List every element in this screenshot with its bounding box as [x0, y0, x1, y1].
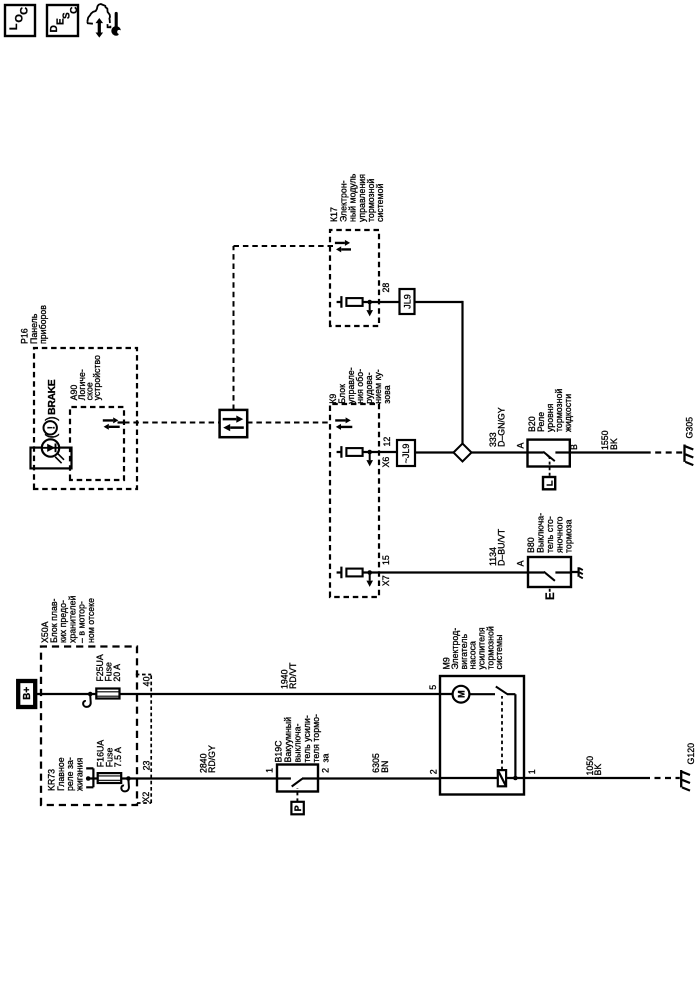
svg-text:BRAKE: BRAKE [47, 379, 58, 415]
svg-text:A: A [516, 443, 526, 449]
wire to splice [415, 451, 454, 453]
svg-text:RD/GY: RD/GY [207, 745, 217, 773]
vacuum link dashes [296, 789, 298, 802]
svg-text:20 A: 20 A [112, 664, 122, 682]
svg-text:жидкости: жидкости [563, 394, 573, 432]
switch B19C [277, 777, 291, 779]
wire [88, 777, 98, 779]
wire 6305 BN [318, 777, 440, 779]
wire pin 12 [379, 451, 397, 453]
body control module K9 box [330, 404, 379, 597]
svg-text:G120: G120 [686, 743, 696, 765]
driver internal stub [337, 301, 342, 303]
switch B20 [528, 451, 544, 453]
svg-text:L: L [8, 23, 20, 30]
wire [363, 301, 379, 303]
brake fluid switch B20 box [528, 440, 570, 467]
fuse block X50A box [41, 647, 137, 806]
svg-text:системой: системой [375, 184, 385, 222]
svg-text:2: 2 [320, 768, 330, 773]
svg-text:RD/VT: RD/VT [288, 662, 298, 689]
ground G305 [683, 445, 685, 462]
svg-text:A: A [516, 560, 526, 566]
svg-text:JL9: JL9 [403, 294, 413, 309]
wrench [115, 13, 118, 26]
protector link dashes [501, 696, 503, 770]
svg-text:BK: BK [609, 438, 619, 450]
pressure symbol P box [291, 802, 303, 815]
svg-text:C: C [69, 7, 80, 14]
svg-text:B+: B+ [22, 687, 33, 700]
driver resistor [346, 298, 362, 306]
serial data wire A90 to gateway [118, 421, 125, 423]
wire through motor protector [440, 777, 524, 779]
svg-text:X7: X7 [381, 575, 391, 586]
instrument panel P16 box [34, 348, 137, 489]
gateway serial arrows [223, 418, 237, 421]
motor thermal protector [498, 770, 506, 786]
driver internal stub [337, 451, 342, 453]
lamp rays [58, 453, 64, 459]
wire pin 28 [379, 301, 400, 303]
svg-text:28: 28 [381, 283, 391, 293]
svg-text:C: C [19, 7, 31, 15]
svg-text:системы: системы [494, 635, 504, 670]
svg-text:P: P [293, 805, 303, 811]
vehicle outline icon [87, 4, 110, 23]
wire B+ feed [35, 693, 96, 695]
motor M [453, 686, 470, 703]
float sensor symbol [543, 477, 555, 489]
svg-text:E: E [545, 592, 557, 600]
fuse F25UA [96, 689, 119, 699]
wire 1134 D-BU/VT [379, 571, 528, 573]
motor lead [440, 693, 453, 695]
inline connector ~JL9 [397, 440, 415, 466]
lift arrow [98, 23, 101, 33]
wire 1940 RD/VT [120, 693, 441, 695]
svg-text:тормоза: тормоза [564, 519, 574, 553]
wire 2840 RD/GY [121, 777, 277, 779]
wire to junction [514, 694, 516, 778]
junction [367, 570, 372, 575]
svg-text:O: O [13, 14, 25, 23]
driver arrow [369, 453, 371, 460]
serial data arrows A90 [103, 419, 113, 421]
fusible-link curl [83, 695, 91, 707]
junction [367, 300, 372, 305]
driver internal stub [337, 571, 342, 573]
svg-text:приборов: приборов [38, 305, 48, 344]
driver arrow [369, 574, 371, 581]
connector X2 strip [150, 675, 152, 804]
driver resistor [346, 569, 362, 577]
svg-text:B: B [569, 444, 579, 450]
serial data arrows K9 [335, 419, 345, 421]
svg-text:D–GN/GY: D–GN/GY [496, 407, 506, 447]
wire 1550 BK [570, 451, 651, 453]
vacuum switch B19C box [277, 765, 318, 792]
serial data wire gateway to K9 [247, 422, 330, 424]
hotlink DESC box [47, 5, 78, 36]
svg-text:X6: X6 [381, 457, 391, 468]
svg-text:M: M [457, 690, 467, 698]
battery terminal B+ [18, 681, 35, 707]
indicator housing [31, 448, 72, 469]
splice diamond [454, 444, 472, 462]
svg-text:40: 40 [141, 676, 151, 686]
svg-text:жигания: жигания [74, 758, 84, 791]
serial data branch to K17 [233, 246, 235, 410]
wire 1050 BK [524, 777, 650, 779]
svg-text:зова: зова [382, 385, 392, 403]
float sensor link [549, 458, 551, 476]
wire 333 D-GN/GY [472, 451, 528, 453]
fusible-link curl [121, 780, 129, 792]
svg-text:12: 12 [382, 437, 392, 447]
svg-text:): ) [44, 416, 60, 421]
svg-text:X2: X2 [141, 792, 151, 803]
svg-text:2: 2 [429, 769, 439, 774]
junction [367, 450, 372, 455]
relay KR73 contact [92, 768, 94, 787]
gateway module box [220, 410, 248, 437]
park brake switch B80 box [528, 557, 571, 587]
svg-text:!: ! [46, 426, 57, 429]
svg-text:5: 5 [428, 685, 438, 690]
svg-text:1: 1 [527, 769, 537, 774]
hotlink LOC box [5, 5, 35, 36]
svg-text:D: D [49, 25, 60, 32]
driver resistor [346, 448, 362, 456]
internal ground B80 [571, 571, 579, 573]
ground G120 [680, 770, 682, 787]
wire 333 segment [415, 301, 463, 303]
wire [363, 451, 379, 453]
svg-text:ном отсеке: ном отсеке [86, 598, 96, 643]
motor to switch wire [469, 693, 495, 695]
svg-text:1: 1 [264, 768, 274, 773]
junction splice [88, 692, 93, 697]
brake control module K17 box [330, 230, 379, 326]
switch M9 [496, 687, 508, 695]
inline connector JL9 [400, 289, 415, 314]
svg-text:~JL9: ~JL9 [401, 444, 411, 464]
svg-text:23: 23 [141, 761, 151, 771]
switch B80 [528, 571, 544, 573]
junction splice [126, 776, 131, 781]
svg-text:G305: G305 [685, 417, 695, 439]
serial data arrows K17 [335, 242, 345, 244]
svg-text:7.5 A: 7.5 A [113, 747, 123, 767]
svg-text:D–BU/VT: D–BU/VT [496, 528, 506, 566]
svg-text:за: за [321, 753, 331, 762]
mechanical link dashes [549, 587, 551, 591]
driver arrow [369, 303, 371, 310]
wire [363, 571, 379, 573]
logic device A90 box [70, 407, 124, 480]
svg-text:BK: BK [593, 764, 603, 776]
pump motor M9 box [440, 676, 524, 795]
indicator lamp (LED) [42, 439, 59, 456]
svg-text:устройство: устройство [92, 355, 102, 400]
svg-text:15: 15 [381, 555, 391, 565]
fuse F16UA [98, 773, 122, 783]
svg-text:BN: BN [380, 761, 390, 773]
